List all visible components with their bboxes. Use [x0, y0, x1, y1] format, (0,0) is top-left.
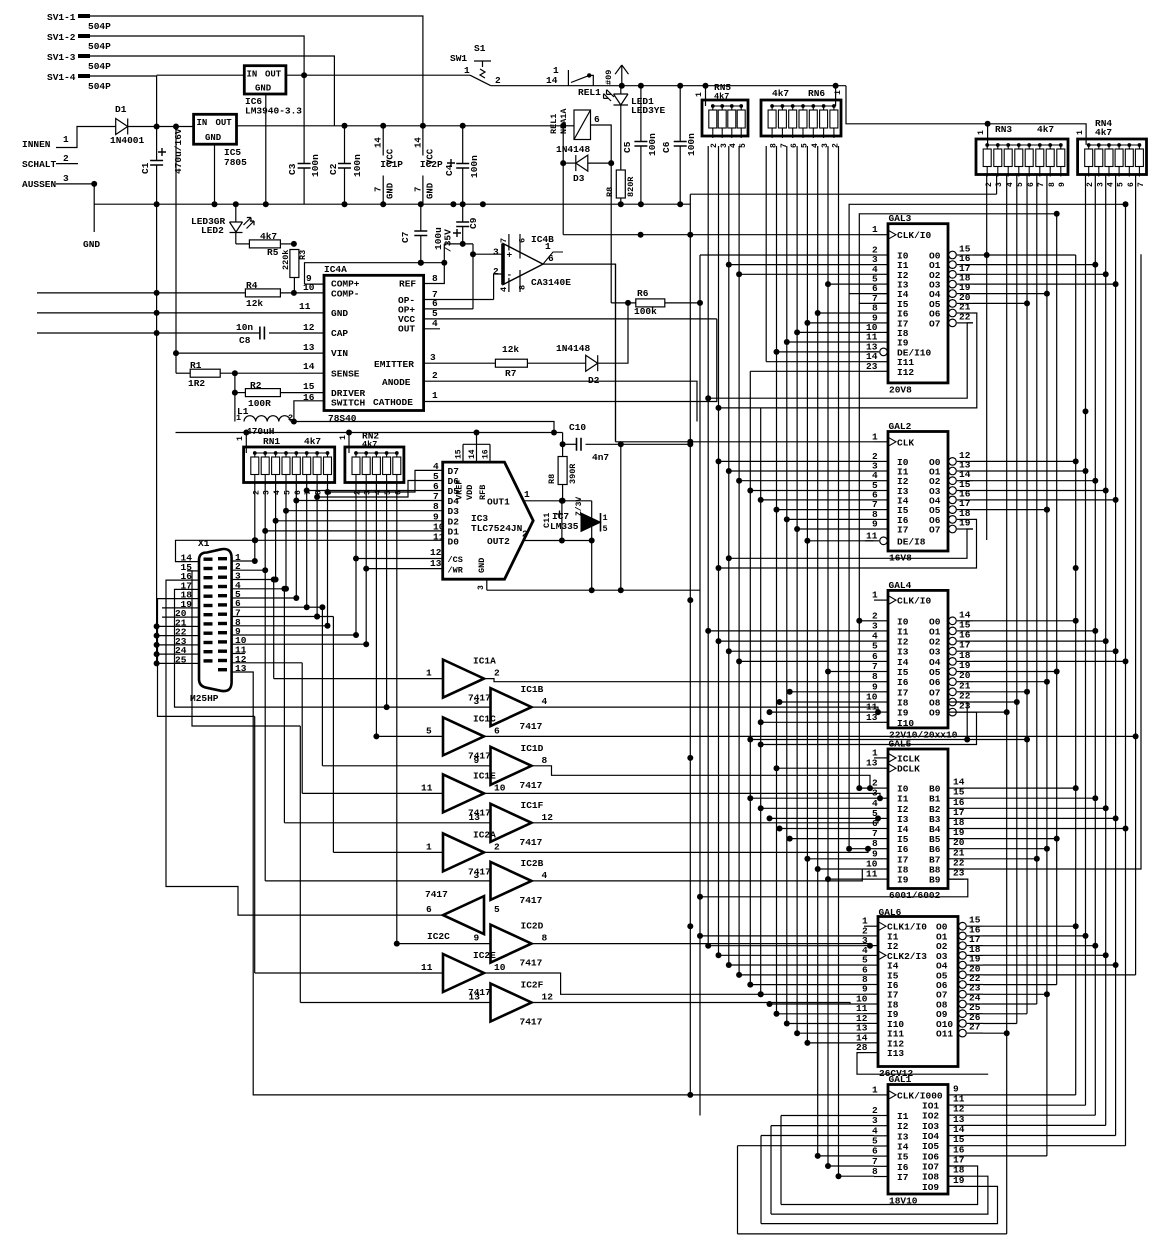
junction C10 net dots [618, 441, 694, 447]
junction C10 left [560, 441, 566, 447]
svg-text:VDD: VDD [465, 485, 475, 500]
wire GAL5 output row y788 [964, 787, 1076, 789]
wire X1 pin 23 to ground bus [157, 644, 187, 646]
wire C4 top [462, 126, 464, 164]
junction D3 on coil wire [608, 160, 614, 166]
capacitor C2 [338, 164, 351, 169]
resistor R8 820R [616, 170, 625, 198]
svg-text:SWITCH: SWITCH [331, 398, 366, 409]
svg-text:3: 3 [477, 585, 486, 590]
wire INNEN to D1 [90, 126, 116, 128]
junction IC1E to GAL5 p3 [877, 795, 883, 801]
GAL3 pin 23 wire [874, 370, 888, 372]
GAL4 clock mark [889, 596, 896, 604]
junction CAP row [154, 330, 160, 336]
RN2 resistors [352, 453, 401, 485]
GAL5 pin 16 wire [948, 807, 964, 809]
wire RN1 r4 pull-up/data [285, 483, 287, 589]
wire C9 bottom [462, 227, 464, 244]
wire RN2 r2 pull-up [365, 483, 367, 645]
svg-text:5: 5 [603, 524, 608, 534]
GAL6 pin 2 wire [864, 935, 878, 937]
svg-text:RN1: RN1 [263, 436, 280, 447]
svg-text:AUSSEN: AUSSEN [22, 179, 57, 190]
junction GAL2 in 480 [736, 478, 742, 484]
junction GAL2 out 499 [1113, 497, 1119, 503]
connector SV1-1 pin [78, 14, 90, 18]
wire GAL4 O9 loop [761, 712, 977, 744]
junction GAL3 row 342 [784, 339, 790, 345]
wire IC1F output [532, 818, 879, 822]
wire GAL4 loop row right [967, 739, 1027, 741]
wire R5 to R3 [281, 243, 294, 245]
svg-text:X1: X1 [198, 538, 210, 549]
GAL1 pin 11 wire [948, 1104, 964, 1106]
GAL3 pin 16 wire [957, 264, 973, 266]
svg-text:M25HP: M25HP [190, 693, 219, 704]
svg-text:100n: 100n [310, 154, 321, 177]
svg-text:CLK: CLK [897, 437, 914, 448]
GAL6 pin 17 bubble [959, 942, 967, 950]
wire RN1 r1 pull-up/data [254, 483, 256, 562]
GAL6 pin 27 bubble [959, 1029, 967, 1037]
svg-text:1: 1 [426, 841, 432, 852]
svg-text:S1: S1 [474, 43, 486, 54]
junction C7 on COMP+ wire [418, 260, 424, 266]
svg-text:I7: I7 [897, 1172, 909, 1183]
wire IC2A input [333, 851, 443, 853]
wire IC3 D4 line [296, 500, 442, 502]
wire GAL4 input row y641 [719, 640, 875, 642]
junction GND row [154, 310, 160, 316]
GAL6 pin 16 wire [967, 935, 983, 937]
junction GAL4 O9 loop [758, 742, 764, 748]
wire IC3 D3 line [286, 510, 443, 512]
junction D3 anode [560, 160, 566, 166]
wire GAL2 output row y461 [973, 460, 1076, 462]
wire GAL6 input row y994 [761, 993, 864, 995]
capacitor C1 plus sign [158, 148, 166, 156]
svg-text:3: 3 [63, 173, 69, 184]
wire GAL6 input row y965 [729, 964, 864, 966]
wire GAL5 input row y858 [807, 858, 874, 860]
svg-text:CATHODE: CATHODE [373, 397, 413, 408]
junction C7 net [418, 260, 424, 266]
svg-text:D3: D3 [573, 173, 585, 184]
RN3 bus junction dots [985, 143, 1062, 147]
GAL1 pin 5 wire [874, 1145, 888, 1147]
wire GAL2 input row y499 [761, 499, 874, 501]
svg-text:OUT: OUT [216, 118, 233, 128]
svg-text:C2: C2 [328, 163, 339, 175]
svg-text:1R2: 1R2 [188, 378, 205, 389]
junction GAL4 O8 loop [747, 737, 753, 743]
svg-text:IC2B: IC2B [521, 858, 544, 869]
wire GAL1 clock from X1 [232, 672, 874, 1095]
resistor network RN4 box [1078, 139, 1147, 175]
GAL2 pin 3 wire [874, 470, 888, 472]
GAL2 pin 2 wire [874, 460, 888, 462]
GAL1 pin 4 wire [874, 1135, 888, 1137]
GAL5 pin 22 wire [948, 868, 964, 870]
wire GAL1 loop out y1186 [761, 1186, 998, 1223]
junction GAL5 p2 [856, 785, 862, 791]
wire IC2B input [265, 880, 490, 882]
diode D2 [586, 355, 598, 371]
svg-text:15: 15 [455, 449, 464, 459]
wire GAL5 output row y818 [964, 817, 1116, 819]
GAL3 pin 14 wire [874, 361, 888, 363]
GAL6 pin 20 wire [967, 974, 983, 976]
wire GAL1 loop vertical x771 [770, 1126, 772, 1215]
junction GAL4 out 620 [1073, 618, 1079, 624]
svg-text:/WR: /WR [448, 566, 464, 576]
junction IC1F riser [281, 586, 287, 592]
wire GAL4 output row y681 [973, 681, 1047, 683]
svg-text:REL1: REL1 [578, 87, 601, 98]
svg-text:6: 6 [426, 904, 432, 915]
RN4 resistors [1085, 145, 1144, 177]
svg-text:504P: 504P [88, 21, 111, 32]
wire C10 ground return [620, 444, 622, 590]
capacitor C6 [674, 142, 687, 147]
GAL5 pin 10 wire [874, 868, 888, 870]
wire C3 from 3.3V rail [303, 75, 305, 163]
wire IC1A input [274, 678, 443, 680]
GAL5 pin 7 wire [874, 838, 888, 840]
junction OP+ vertical [470, 251, 476, 257]
GAL4 pin 16 wire [957, 640, 973, 642]
GAL6 pin 19 wire [967, 964, 983, 966]
GAL2 pin 16 bubble [949, 496, 957, 504]
junction GAL6 in 1042 [804, 1040, 810, 1046]
junction R1/R2 [232, 370, 238, 376]
svg-text:7417: 7417 [520, 837, 543, 848]
GAL5 clock mark [889, 754, 896, 762]
wire VIN to R1 [175, 353, 177, 373]
GAL4 pin 2 wire [874, 620, 888, 622]
GAL6 pin 11 wire [864, 1013, 878, 1015]
junction dots VDD wire [243, 430, 479, 436]
junction GAL4 out 641 [1103, 638, 1109, 644]
svg-text:IC1E: IC1E [473, 770, 496, 781]
wire IC2F riser [299, 726, 301, 1003]
resistor network RN1 box [244, 447, 335, 483]
wire RN2 pin1 stub [348, 433, 350, 454]
svg-text:8: 8 [542, 933, 548, 944]
wire R3 to COMP- [293, 278, 295, 293]
svg-text:GND: GND [255, 84, 272, 94]
junction GAL4 out 630 [1092, 628, 1098, 634]
resistor R5 [249, 240, 280, 248]
wire C7 bottom [420, 236, 422, 263]
inductor L1 [244, 416, 290, 422]
junction RN3p9 feed [1054, 211, 1060, 217]
wire GAL5 output row y798 [964, 797, 1095, 799]
wire RN1 r7 pull-up/data [316, 483, 318, 617]
GAL3 pin 15 wire [957, 254, 973, 256]
svg-text:1: 1 [545, 241, 551, 252]
wire C3 bottom [303, 168, 305, 204]
wire C6 bottom [679, 146, 681, 204]
wire IC2A output [484, 849, 868, 853]
wire C2 top [344, 126, 346, 164]
svg-text:D1: D1 [115, 104, 127, 115]
junction GAL4 p13 [758, 719, 764, 725]
wire IC1P GND stub [382, 176, 384, 205]
wire LM335 branch [591, 501, 593, 590]
wire IC2P VCC stub [422, 126, 424, 156]
wire X1 pin 11 lead [232, 653, 245, 655]
svg-text:IC1D: IC1D [521, 743, 544, 754]
GAL6 pin 25 bubble [959, 1010, 967, 1018]
svg-text:100R: 100R [248, 398, 271, 409]
wire bus vertical x817 [817, 146, 819, 1156]
junction B9 loop [697, 894, 703, 900]
X1 pin 14 lead [187, 561, 199, 563]
svg-text:RN6: RN6 [808, 88, 825, 99]
svg-text:IC2C: IC2C [427, 931, 450, 942]
GAL3 pin 19 wire [957, 293, 973, 295]
wire R8 to ground rail [620, 198, 622, 204]
svg-text:OUT2: OUT2 [487, 536, 510, 547]
junction D7 tap [325, 489, 331, 495]
wire GAL3 input row y322 [807, 322, 874, 324]
GAL3 pin 11 wire [874, 341, 888, 343]
junction GAL4 out 691 [1024, 689, 1030, 695]
GAL2 pin 11 wire [865, 540, 879, 542]
GAL3 pin 10 wire [874, 331, 888, 333]
svg-text:IC2D: IC2D [521, 921, 544, 932]
svg-text:Z/3V: Z/3V [575, 497, 584, 516]
X1 pin 22 lead [187, 635, 199, 637]
wire C2 bottom [344, 168, 346, 204]
GAL2 clock mark [889, 438, 896, 446]
svg-text:SW1: SW1 [450, 53, 467, 64]
wire feed RN3p3 [690, 193, 996, 195]
wire GAL6 output row y945 [983, 945, 1095, 947]
junction X1 pin 10 [363, 641, 369, 647]
GAL3 pin 13 bubble [880, 348, 888, 356]
junction X1 pin 22 [154, 633, 160, 639]
svg-text:CAP: CAP [331, 328, 348, 339]
wire GAL6 input row y1023 [787, 1023, 864, 1025]
svg-text:6: 6 [518, 238, 528, 243]
svg-text:IC1C: IC1C [473, 713, 496, 724]
junction GAL2 in 519 [784, 516, 790, 522]
buffer IC1A triangle [443, 660, 484, 698]
wire GAL1 output row y1105 [964, 1104, 1086, 1106]
svg-text:DE/I8: DE/I8 [897, 536, 926, 547]
svg-text:6: 6 [790, 143, 799, 148]
wire X1 pin7 ext [317, 616, 333, 618]
wire GAL3 clock row [563, 234, 874, 236]
wire LED2 top [235, 204, 237, 222]
GAL3 pin 7 wire [874, 302, 888, 304]
svg-text:4k7: 4k7 [714, 92, 729, 102]
wire GAL6 staircase out y1023 [983, 1023, 1017, 1025]
svg-text:GND: GND [205, 133, 222, 143]
svg-text:LM3940-3.3: LM3940-3.3 [245, 106, 302, 117]
junction GAL5 in 838 [787, 836, 793, 842]
wire bus vertical x828 [827, 146, 829, 1166]
svg-text:I7: I7 [897, 525, 909, 536]
wire SWITCH to L1 [294, 401, 324, 422]
resistor R7 [495, 359, 527, 367]
svg-text:5: 5 [426, 725, 432, 736]
svg-text:D2: D2 [588, 375, 600, 386]
svg-text:GND: GND [331, 308, 348, 319]
wire RN5 pin1 stub [705, 86, 707, 106]
resistor R2 [245, 389, 280, 397]
svg-text:22: 22 [959, 311, 971, 322]
wire margin vertical x1135 [1135, 175, 1137, 975]
junction D3 tap [283, 508, 289, 514]
svg-text:IC1A: IC1A [473, 656, 496, 667]
junction C2 on +5V rail [342, 123, 348, 129]
wire OUT2 [524, 540, 592, 542]
junction GAL6 in 1013 [774, 1011, 780, 1017]
wire D3 cathode [588, 162, 611, 164]
svg-text:CLK/I0: CLK/I0 [897, 596, 932, 607]
svg-text:R8: R8 [605, 187, 615, 197]
svg-text:1: 1 [63, 134, 69, 145]
wire GAL2 clock row [616, 441, 875, 443]
junction X1 pin 8 [325, 623, 331, 629]
junction GAL5 out 798 [1092, 795, 1098, 801]
svg-text:GND: GND [425, 182, 435, 199]
svg-text:2: 2 [495, 75, 501, 86]
GAL6 pin 23 wire [967, 993, 983, 995]
wire VCC pin5 stub [424, 318, 717, 320]
junction RN3 pin1 feed [985, 121, 991, 127]
junction GAL3 out 303 [1024, 300, 1030, 306]
wire GAL4 O8 loop [750, 702, 967, 740]
svg-text:SV1-1: SV1-1 [47, 12, 76, 23]
resistor network RN3 box [976, 139, 1068, 175]
wire left bus ground feed [156, 204, 158, 333]
svg-text:1: 1 [834, 90, 843, 95]
GAL5 pin 21 wire [948, 858, 964, 860]
GAL5 pin 9 wire [874, 858, 888, 860]
GAL2 pin 17 wire [957, 509, 973, 511]
junction GAL6 in 994 [758, 991, 764, 997]
svg-text:IC2E: IC2E [473, 950, 496, 961]
svg-text:LED3YE: LED3YE [631, 105, 666, 116]
junction REF/COMP+ net [441, 260, 447, 266]
svg-text:LED2: LED2 [201, 225, 224, 236]
svg-text:IC2A: IC2A [473, 829, 496, 840]
junction GAL5 in 798 [747, 795, 753, 801]
wire C8 to CAP pin [269, 332, 324, 334]
wire SV1-2 to 3.3V rail [90, 36, 304, 75]
wire bus vertical x718 [718, 146, 720, 955]
svg-text:D0: D0 [448, 537, 460, 548]
wire IC2E riser [254, 716, 256, 973]
wire IC2C output to X1 pin16 [166, 580, 443, 915]
svg-text:2: 2 [494, 668, 500, 679]
GAL1 pin 16 wire [948, 1155, 964, 1157]
wire R2 to DRIVER [281, 392, 324, 394]
wire R6 left [611, 302, 636, 304]
junction GAL6 in 935 [697, 933, 703, 939]
svg-text:6: 6 [494, 725, 500, 736]
wire IC1B output [532, 707, 879, 712]
junction GAL4 in 651 [726, 648, 732, 654]
reference IC7 LM335 triangle [581, 513, 601, 532]
wire GAL1 loop out y1176 [771, 1176, 988, 1214]
wire X1 pin 22 to ground bus [157, 635, 187, 637]
svg-text:OUT: OUT [265, 70, 282, 80]
GAL6 pin 9 wire [864, 993, 878, 995]
GAL4 pin 1 wire [874, 599, 888, 601]
svg-text:7417: 7417 [468, 693, 491, 704]
connector X1 pin bars [204, 557, 228, 671]
wire bus vertical x786 [786, 146, 788, 1024]
GAL5 pin 2 wire [874, 787, 888, 789]
svg-text:1: 1 [236, 436, 245, 441]
GAL6 pin 19 bubble [959, 961, 967, 969]
junction GAL3 out 264 [1092, 262, 1098, 268]
wire GAL1 loop vertical x737 [737, 1146, 739, 1234]
voltage regulator IC6 box [244, 66, 286, 94]
junction GAL2 O7 loop [726, 555, 732, 561]
wire GAL6 output row y935 [983, 935, 1086, 937]
wire D1 to IC5 [128, 126, 194, 128]
wire GAL2 clock feed [615, 264, 617, 442]
wire GAL6 staircase out y994 [983, 993, 1047, 995]
junction D2 tap [273, 518, 279, 524]
svg-text:2: 2 [432, 370, 438, 381]
wire RN1 r8 pull-up/data [327, 483, 329, 626]
svg-text:10n: 10n [236, 322, 253, 333]
svg-text:REF: REF [399, 279, 416, 290]
svg-text:6: 6 [294, 490, 303, 495]
wire margin vertical x1027 [1026, 175, 1028, 1014]
wire bus vertical x859 [858, 303, 860, 788]
wire GAL6 output row y955 [983, 954, 1106, 956]
GAL6 pin 16 bubble [959, 932, 967, 940]
junction GAL6 in 955 [716, 952, 722, 958]
wire D2 cathode up [598, 303, 628, 363]
wire GAL2 output row y509 [973, 509, 1047, 511]
svg-text:7417: 7417 [468, 750, 491, 761]
junction GAL3 row 274 [736, 271, 742, 277]
wire GAL1 input row y1135 [761, 1135, 874, 1137]
svg-text:1: 1 [695, 92, 704, 97]
wire GAL3 input row y264 [729, 264, 874, 266]
wire bus vertical x797 [796, 146, 798, 1033]
wire GAL1 output row y1125 [964, 1124, 1106, 1126]
wire IC1P VCC stub [382, 126, 384, 156]
wire R4 to COMP- [281, 292, 324, 294]
wire RN3 pin1 stub [987, 124, 989, 145]
GAL2 pin 17 bubble [949, 506, 957, 514]
svg-text:4k7: 4k7 [304, 436, 321, 447]
GAL6 pin 15 wire [967, 925, 983, 927]
wire GAL1 input row y1145 [738, 1145, 875, 1147]
wire bus vertical x776 [776, 146, 778, 1014]
svg-text:5: 5 [801, 143, 810, 148]
wire GAL6 input row y1042 [807, 1042, 864, 1044]
GAL2 pin 19 wire [957, 528, 973, 530]
buffer IC1C triangle [443, 717, 484, 755]
svg-text:1: 1 [524, 489, 530, 500]
wire GAL6 output row y926 [983, 925, 1076, 927]
svg-text:2: 2 [1086, 182, 1095, 187]
wire GAL5 B8 row [948, 254, 1141, 869]
junction RN2 r3 [373, 733, 379, 739]
